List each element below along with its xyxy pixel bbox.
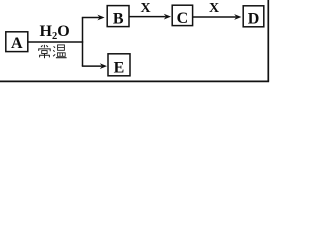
svg-text:X: X bbox=[209, 1, 219, 16]
box C bbox=[172, 5, 192, 27]
label 常温 (drawn strokes) bbox=[39, 45, 67, 58]
svg-text:A: A bbox=[11, 35, 23, 52]
arrow C to D bbox=[193, 14, 242, 20]
svg-text:X: X bbox=[140, 1, 150, 16]
svg-text:D: D bbox=[248, 11, 260, 28]
wire A to junction bbox=[28, 41, 83, 43]
box A bbox=[6, 32, 28, 52]
svg-text:C: C bbox=[177, 10, 189, 27]
arrow B to C bbox=[129, 14, 171, 20]
wire to B with arrowhead bbox=[82, 15, 105, 21]
wire to E with arrowhead bbox=[82, 63, 107, 69]
svg-text:E: E bbox=[114, 59, 125, 76]
box B bbox=[107, 6, 129, 28]
box D bbox=[243, 6, 264, 28]
box E bbox=[108, 54, 130, 77]
table border bottom bbox=[0, 80, 269, 82]
wire junction vertical bbox=[82, 18, 84, 67]
svg-text:B: B bbox=[113, 11, 124, 28]
table border right bbox=[267, 0, 269, 81]
